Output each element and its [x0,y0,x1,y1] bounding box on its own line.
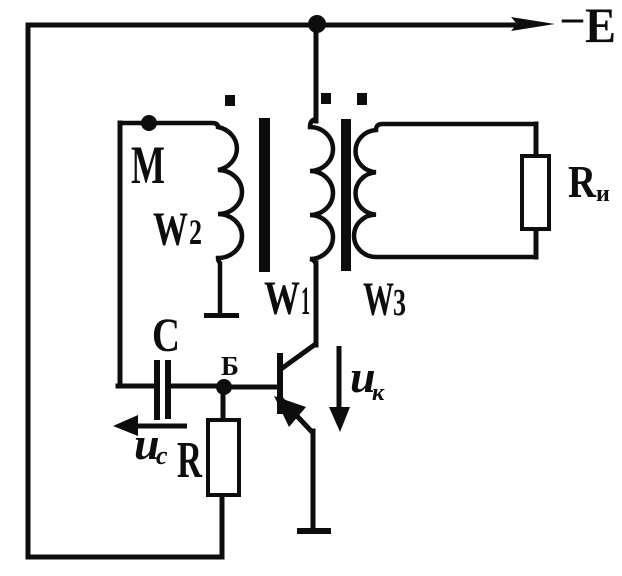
polarity dot W3 [357,93,367,105]
transistor Q1 base bar [277,353,283,414]
svg-text:W: W [264,272,300,325]
resistor Rn body [522,156,549,229]
node Б junction dot [216,379,232,395]
wire Rn top lead [534,124,539,156]
wire top horizontal from left corner to -E arrow [28,23,514,28]
svg-text:Б: Б [221,351,239,381]
svg-text:W: W [153,203,188,256]
svg-text:3: 3 [393,282,406,324]
arrow to -E [511,17,555,31]
wire Rn bottom lead [534,229,539,257]
resistor R body [208,420,239,495]
ground emitter [297,528,331,534]
polarity dot W1 [321,93,331,104]
svg-text:W: W [363,273,394,326]
svg-text:1: 1 [301,278,310,323]
capacitor C plates [154,360,160,420]
svg-text:E: E [585,0,616,53]
wire emitter vertical to ground [311,431,316,528]
winding W1 [310,119,333,266]
arrow u_k [337,346,342,408]
wire base lead from node Б to transistor [224,385,277,390]
svg-text:R: R [568,157,596,207]
transistor emitter arrow [274,396,306,427]
wire W1 top vertical from node [314,25,319,121]
transistor collector lead [281,343,317,369]
polarity dot W2 [225,95,235,106]
svg-text:c: c [156,441,168,470]
wire resistor R top lead to node Б [221,387,226,420]
svg-text:M: M [131,135,165,195]
winding W3 with top and bottom wires [354,124,536,257]
wire resistor R bottom lead [220,495,225,557]
wire left outer vertical [26,25,31,557]
svg-text:и: и [596,181,610,207]
svg-text:–: – [561,0,584,41]
svg-text:C: C [152,309,180,362]
transformer core bar left [259,118,270,272]
winding W2 with top wire and ground lead [118,123,242,314]
wire capacitor left lead [118,384,154,389]
arrow u_c [130,424,187,429]
svg-text:к: к [372,380,385,406]
transistor emitter lead [281,399,313,433]
wire inner left vertical (node M to capacitor) [118,123,123,386]
wire capacitor right lead to node Б [171,384,224,389]
transformer core bar right [341,119,351,271]
svg-text:R: R [177,432,203,489]
ground W2 [204,313,239,318]
wire W1 bottom to collector [314,263,319,345]
node M junction dot [141,115,157,131]
svg-text:2: 2 [189,212,202,252]
node junction top (supply node) [308,15,326,33]
wire bottom horizontal [28,555,222,560]
